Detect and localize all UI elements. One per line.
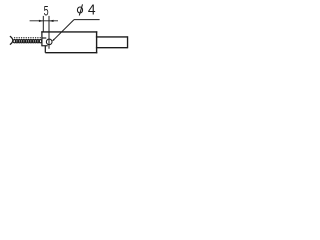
step bottom <box>42 45 48 47</box>
left edge upper <box>41 31 43 46</box>
lower-left vertical <box>44 46 46 53</box>
stub top <box>96 36 128 38</box>
leader underline <box>74 19 100 21</box>
coiled cable <box>14 37 41 38</box>
bottom edge <box>45 52 97 54</box>
hole circle <box>46 39 52 45</box>
stub right edge <box>127 36 129 48</box>
sensor body outline <box>41 31 127 53</box>
cable break symbol <box>10 36 13 45</box>
stub bottom <box>96 47 128 49</box>
barrel top <box>42 37 46 39</box>
phi symbol <box>77 7 82 13</box>
arrowhead left pointing right <box>39 20 43 22</box>
dimension line 5 <box>30 20 58 22</box>
leader line for diameter <box>53 20 74 41</box>
svg-text:5: 5 <box>44 3 49 18</box>
background <box>0 0 139 62</box>
hole centerline vertical (also right extension line of dim 5) <box>48 16 50 49</box>
leader arrowhead <box>52 39 55 42</box>
right edge <box>96 31 98 53</box>
top edge <box>41 31 97 33</box>
svg-text:4: 4 <box>88 2 96 19</box>
left extension line of dim 5 <box>42 16 44 32</box>
arrowhead right pointing left <box>49 20 53 22</box>
